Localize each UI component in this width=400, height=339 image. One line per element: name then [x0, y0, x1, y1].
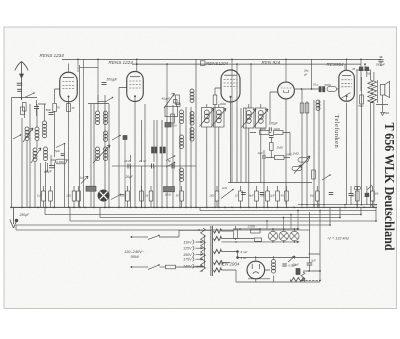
wire V4 bottom — [285, 99, 287, 205]
wire rail y225 — [16, 224, 330, 226]
svg-text:60μF: 60μF — [293, 263, 300, 267]
wire br vertical — [310, 211, 321, 281]
wire left verticals A — [12, 104, 31, 207]
coil L8 — [96, 147, 100, 151]
svg-text:95W: 95W — [131, 254, 140, 259]
IF dark box — [165, 123, 171, 128]
wire left verticals B — [27, 104, 65, 207]
resistor row R357 — [356, 191, 360, 201]
output transformer secondary — [371, 81, 376, 102]
svg-text:5μF: 5μF — [55, 149, 60, 153]
wire rail y214 — [45, 214, 361, 216]
wire rail y230 — [16, 229, 310, 231]
resistor R6 — [171, 114, 175, 123]
wire S3 join — [98, 101, 106, 103]
wire speaker leads — [376, 95, 389, 116]
capacitor C10 — [268, 127, 270, 131]
resistor row R50 — [49, 191, 53, 201]
wire V5 grid chain — [295, 88, 339, 90]
wire ground bus — [11, 206, 377, 208]
coil L4 — [44, 147, 48, 151]
svg-text:50,0: 50,0 — [172, 123, 178, 127]
svg-text:RENS 1234: RENS 1234 — [40, 53, 65, 58]
capacitor C5b — [61, 153, 65, 155]
wire tap bus — [203, 235, 205, 268]
svg-text:1kΩ: 1kΩ — [222, 186, 228, 190]
wire transformer leads — [222, 231, 255, 270]
junction dots rails — [266, 220, 268, 222]
wire top bus stub — [80, 67, 99, 69]
wire coil block top join — [38, 103, 109, 106]
svg-text:4 nF: 4 nF — [241, 256, 247, 260]
wire choke leads — [273, 256, 275, 282]
svg-text:175V: 175V — [183, 258, 192, 262]
mains switch a — [133, 236, 148, 238]
coil L5 — [96, 111, 100, 115]
wire br horizontal — [302, 280, 320, 282]
coil L9 — [104, 147, 108, 151]
svg-text:μF: μF — [303, 73, 308, 77]
IF trimmers — [174, 100, 178, 104]
resistor row R372 — [371, 191, 375, 201]
capacitor C7 — [127, 164, 129, 169]
IF box — [165, 106, 178, 116]
wire V2 grid — [119, 88, 127, 208]
svg-text:50kΩ: 50kΩ — [325, 83, 333, 87]
svg-text:11kΩ: 11kΩ — [165, 193, 172, 197]
svg-text:110V: 110V — [183, 240, 192, 244]
resistor R9 — [274, 131, 284, 135]
wire br join — [303, 270, 320, 272]
transformer winding 4 — [214, 260, 224, 264]
potentiometer P1 — [298, 158, 308, 162]
switch S5 — [166, 156, 175, 161]
svg-text:100μμF: 100μμF — [376, 63, 386, 67]
capacitor C19 — [260, 192, 265, 194]
resistor row R267 — [266, 191, 270, 201]
wire bottom rails — [236, 270, 320, 282]
switch S4 — [112, 136, 120, 141]
wire rail y217 — [100, 217, 340, 219]
wire rail y221 — [70, 220, 376, 222]
svg-text:RENS1204: RENS1204 — [206, 61, 229, 66]
resistor row R141 — [140, 191, 144, 201]
junction dots top bus — [77, 59, 79, 61]
resistor R17 — [234, 229, 238, 239]
wire upper bus right — [298, 204, 377, 206]
svg-text:J10Ω: J10Ω — [248, 225, 256, 229]
svg-text:0,1MΩ: 0,1MΩ — [57, 161, 65, 164]
resistor row R151 — [149, 191, 153, 201]
svg-text:2k: 2k — [144, 194, 148, 198]
capacitor C-ant2 — [34, 106, 39, 108]
wire osc boxes 2 — [249, 104, 261, 207]
svg-text:70: 70 — [57, 106, 61, 110]
capacitor C8 — [151, 164, 153, 169]
svg-text:20μF: 20μF — [44, 170, 53, 174]
wire antenna to earth switch — [12, 98, 38, 131]
junction dots br — [319, 270, 321, 272]
resistor R15 — [312, 170, 316, 179]
svg-text:1μF: 1μF — [258, 151, 263, 155]
wire rail bends — [16, 207, 376, 230]
dial lamp 2 — [279, 231, 288, 240]
coil L1 — [25, 127, 29, 131]
svg-text:1MΩ: 1MΩ — [293, 152, 300, 156]
wire top bus 1 drops — [78, 59, 361, 207]
svg-text:RENS 1224: RENS 1224 — [109, 60, 134, 65]
resistor R12 50k — [327, 87, 337, 92]
svg-text:125V: 125V — [183, 247, 192, 251]
coil L2b — [43, 121, 47, 125]
osc box 4 — [256, 108, 267, 128]
earth switch S1 — [25, 93, 34, 97]
svg-text:-V = 132 kHz: -V = 132 kHz — [327, 237, 349, 241]
wire right verticals — [302, 70, 362, 207]
resistor R5 — [176, 95, 180, 105]
trimmer box — [21, 107, 25, 115]
tube V4 REN924 — [278, 82, 295, 99]
svg-text:4μF: 4μF — [249, 194, 254, 198]
capacitor C17 250uF — [15, 219, 18, 222]
svg-text:40μμF: 40μμF — [162, 97, 171, 101]
ground electrode — [10, 207, 17, 228]
resistor R19 — [255, 238, 262, 241]
capacitor C18 — [241, 192, 246, 194]
dial lamp 1 — [268, 231, 277, 240]
svg-text:1MΩ: 1MΩ — [220, 102, 227, 106]
speaker — [380, 85, 385, 96]
tuning arrow L8/L9 — [93, 145, 110, 163]
coil L14 — [190, 112, 194, 116]
wire V5 bottom — [346, 103, 348, 205]
junction dots top bus 2 — [136, 63, 138, 65]
switch S7 wave change — [111, 195, 121, 200]
tube V5 RES964 — [339, 70, 355, 101]
svg-text:1kΩ: 1kΩ — [209, 194, 214, 198]
resistor R21 zigzag — [301, 272, 305, 281]
resistor row R317 — [316, 191, 320, 201]
wire V1 top lead — [68, 64, 70, 73]
tube V3 RENS1204 — [221, 70, 240, 102]
capacitor C11 — [269, 135, 274, 137]
power transformer core — [211, 226, 213, 276]
svg-text:20kΩ: 20kΩ — [273, 127, 282, 131]
band switch S2b — [13, 135, 21, 139]
capacitor C3 grid — [49, 112, 54, 114]
wire top bus 2 — [132, 63, 361, 65]
resistor row R286 — [285, 191, 289, 201]
svg-text:1MΩ: 1MΩ — [277, 146, 284, 150]
coil L15 — [190, 128, 194, 132]
mains switch b — [133, 266, 148, 268]
fuse — [166, 265, 176, 269]
resistor R16b dark — [86, 186, 96, 191]
capacitor C13 — [319, 87, 321, 92]
wire lamp rail top — [234, 228, 297, 230]
wire V2 bottom lead — [134, 102, 136, 208]
coil L13 — [180, 168, 184, 172]
switch S8 — [221, 190, 233, 199]
output transformer core — [377, 80, 379, 103]
wire V4 grid — [270, 92, 277, 122]
wire line y182 — [228, 182, 312, 184]
wire mid horizontal y166 — [112, 165, 196, 167]
label RENS1204 — [201, 61, 206, 66]
svg-text:(N): (N) — [375, 192, 379, 196]
coil L2 — [35, 127, 39, 131]
wire output transformer — [356, 70, 374, 207]
resistor R13 — [300, 103, 304, 113]
resistor row R74 — [72, 191, 76, 201]
wire lamp rail bottom — [222, 241, 297, 243]
resistor R14 — [305, 103, 309, 113]
wire V1 grid lead — [55, 89, 60, 103]
capacitor C14 — [359, 67, 363, 71]
antenna series capacitor — [17, 82, 23, 84]
osc box 3 — [244, 108, 255, 128]
resistor row R78 — [77, 191, 81, 201]
wire V1 bottom lead — [68, 102, 70, 208]
svg-text:10: 10 — [235, 194, 238, 198]
wire C14 C15 down — [361, 71, 367, 91]
svg-text:Telefunken: Telefunken — [333, 115, 340, 149]
coil L7 — [104, 131, 108, 135]
transformer winding 5 — [214, 268, 222, 272]
svg-text:RES964: RES964 — [327, 62, 345, 67]
capacitor C15 — [365, 67, 369, 71]
osc box 4 arrow — [254, 109, 269, 128]
wire rail y210 — [200, 210, 376, 212]
wire IF verticals — [145, 59, 196, 207]
capacitor C22 heater — [236, 250, 239, 253]
dial lamp 3 — [290, 231, 299, 240]
svg-text:1μF: 1μF — [80, 176, 85, 180]
capacitor C24 — [307, 262, 313, 264]
resistor row R127 — [126, 191, 130, 201]
osc box 2 arrow — [212, 109, 227, 127]
tuning arrow L3/L4 — [31, 148, 41, 163]
svg-text:500μμF: 500μμF — [107, 78, 119, 82]
svg-text:20μF: 20μF — [125, 175, 134, 179]
mains plug dot b — [131, 266, 133, 268]
coil L6 — [104, 111, 108, 115]
osc box 2 — [214, 108, 225, 128]
svg-text:40: 40 — [281, 194, 284, 198]
svg-text:1kΩ: 1kΩ — [310, 194, 315, 198]
resistor R3 box — [56, 159, 67, 164]
junction dots ground bus — [10, 207, 12, 209]
resistor R-ant — [23, 103, 27, 112]
svg-text:2μF: 2μF — [310, 259, 316, 263]
svg-text:100pF: 100pF — [269, 122, 279, 126]
capacitor C12 — [262, 155, 266, 157]
coil L3 — [33, 148, 37, 152]
resistor R20 zigzag — [290, 278, 305, 282]
resistor R11 — [275, 155, 285, 159]
svg-text:240V: 240V — [182, 265, 192, 269]
capacitor C16 topright — [379, 59, 384, 61]
wire top bus 2 drops — [167, 64, 365, 108]
svg-text:50: 50 — [176, 194, 179, 198]
wire V3 bottom — [230, 102, 232, 183]
wire long verticals mid — [232, 107, 246, 183]
osc box 1 arrow — [200, 109, 215, 127]
transformer winding 2 — [214, 236, 222, 240]
svg-text:150V: 150V — [183, 253, 192, 257]
wire rail bends right — [267, 211, 298, 230]
wire rectifier leads — [256, 256, 270, 282]
svg-text:55·μ: 55·μ — [313, 82, 319, 86]
antenna — [15, 62, 28, 101]
switch S5b — [166, 163, 175, 168]
wire mid cap verticals — [131, 120, 155, 207]
wire R7 down — [214, 105, 216, 208]
resistor row R240 — [239, 191, 243, 201]
wire V2 top lead — [136, 59, 138, 72]
capacitor C7b dark — [152, 147, 154, 153]
resistor row R181 — [180, 191, 184, 201]
resistor row R43 — [42, 191, 46, 201]
tuning arrow L1/L2 — [23, 128, 33, 142]
wire top bus 1 — [62, 58, 381, 60]
capacitor C25 dark — [296, 269, 300, 275]
tube V2 RENS1224 — [127, 72, 144, 102]
coil L12 — [180, 135, 184, 139]
pot arrow left — [81, 176, 88, 183]
filter choke — [272, 260, 276, 264]
osc box 3 arrow — [242, 109, 257, 128]
dark box mid — [123, 136, 127, 140]
wire heater rail — [234, 252, 310, 258]
coil L11 — [180, 110, 184, 114]
switch S6 — [322, 175, 330, 180]
svg-text:250μF: 250μF — [19, 213, 31, 217]
capacitor C20 — [329, 192, 334, 194]
transformer winding 1 — [214, 229, 222, 233]
wire V3 grid — [215, 88, 221, 95]
resistor row R256 — [255, 191, 259, 201]
capacitor C5 — [49, 165, 55, 167]
capacitor C9 — [171, 164, 173, 169]
output transformer primary — [368, 80, 373, 103]
osc box 1 — [202, 108, 213, 128]
svg-text:REN 924: REN 924 — [262, 60, 281, 65]
wire left lower joins — [41, 155, 69, 207]
svg-text:45: 45 — [352, 67, 356, 71]
coil L16 choke — [316, 100, 320, 104]
svg-text:T 656 WLK Deutschland: T 656 WLK Deutschland — [381, 123, 396, 251]
potentiometer P2 — [292, 167, 302, 171]
capacitor C8b dark — [160, 147, 162, 153]
svg-text:6 mF: 6 mF — [241, 250, 248, 254]
svg-text:20kΩ: 20kΩ — [259, 127, 268, 131]
transformer winding 3 — [214, 249, 222, 253]
capacitor C6 500uuF — [102, 82, 107, 84]
svg-text:2kΩ: 2kΩ — [65, 194, 71, 198]
resistor R7 1Mohm — [213, 95, 217, 105]
resistor R8 — [260, 131, 270, 135]
band switch S2a — [56, 144, 65, 148]
resistor R22 — [360, 95, 364, 104]
mains plug dot a — [131, 236, 133, 238]
resistor R18 — [251, 229, 261, 233]
capacitor C23 — [282, 263, 287, 265]
resistor R16 dark — [164, 187, 175, 192]
resistor row R277 — [276, 191, 280, 201]
coil L10 — [190, 89, 194, 93]
wire RC cluster — [250, 133, 290, 208]
capacitor C21 — [349, 193, 354, 195]
switch S3 — [106, 98, 113, 102]
mains dropper zigzag — [201, 228, 206, 271]
resistor R2 — [53, 104, 57, 112]
svg-text:500: 500 — [46, 108, 51, 112]
svg-text:2μF: 2μF — [269, 194, 275, 198]
svg-text:5μ: 5μ — [168, 159, 172, 163]
svg-text:0,1: 0,1 — [37, 194, 41, 198]
tube V1 RENS1234 — [60, 72, 78, 102]
wire verticals V1 area — [80, 65, 92, 207]
pot arrow ps — [288, 256, 295, 262]
wire mid verticals — [94, 95, 109, 207]
wire osc boxes — [207, 104, 219, 207]
resistor R2b cathode — [67, 104, 71, 112]
pickup jack dark circle — [98, 190, 109, 201]
rectifier tube REN2004 — [247, 261, 265, 279]
resistor row R217 — [215, 191, 219, 201]
svg-text:REN 2004: REN 2004 — [219, 262, 240, 267]
resistor R10 — [270, 143, 274, 151]
